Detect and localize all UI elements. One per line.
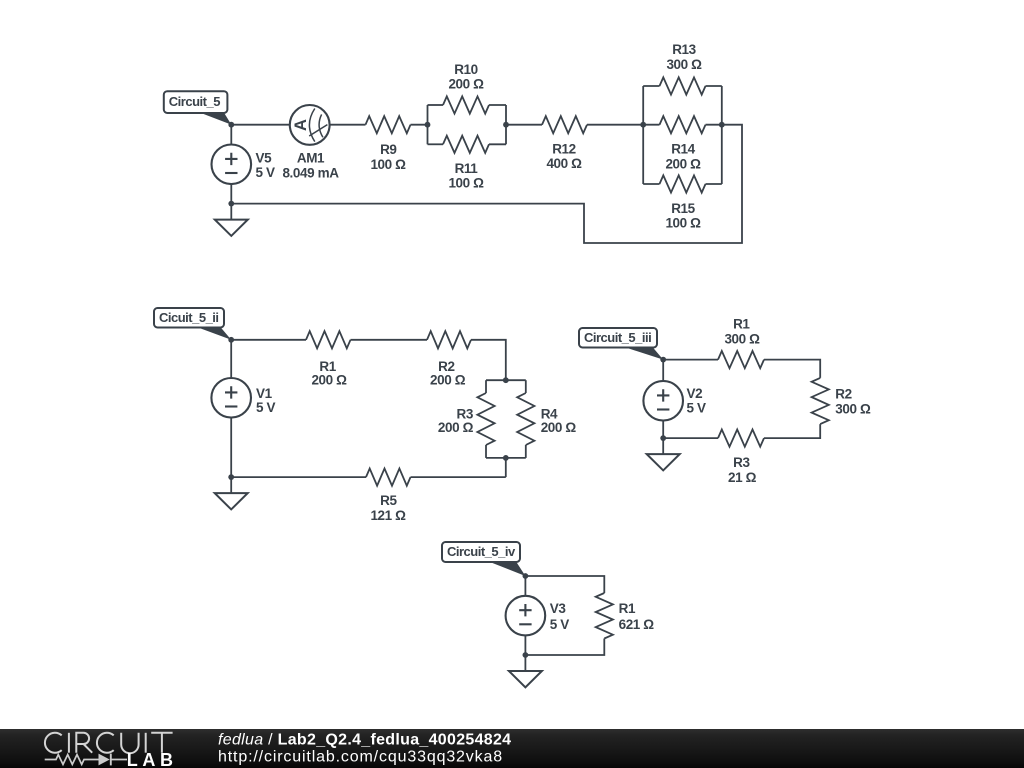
svg-text:8.049 mA: 8.049 mA — [282, 165, 339, 180]
voltage source V3 — [506, 596, 570, 636]
footer bar — [0, 729, 1024, 768]
svg-text:V2: V2 — [687, 386, 703, 401]
node G (V1+) — [228, 337, 234, 343]
node N (V3- / ground) — [523, 652, 529, 658]
svg-text:Circuit_5_iii: Circuit_5_iii — [584, 330, 651, 345]
svg-text:200 Ω: 200 Ω — [430, 373, 466, 388]
svg-text:A: A — [292, 119, 310, 131]
svg-text:5 V: 5 V — [550, 617, 569, 632]
node J (V1- / ground) — [228, 474, 234, 480]
svg-text:http://circuitlab.com/cqu33qq3: http://circuitlab.com/cqu33qq32vka8 — [218, 749, 503, 766]
ground circuit 1 — [215, 204, 248, 236]
net label Circuit_5_iv — [442, 542, 525, 576]
svg-text:V1: V1 — [256, 386, 273, 401]
svg-text:fedlua / Lab2_Q2.4_fedlua_4002: fedlua / Lab2_Q2.4_fedlua_400254824 — [218, 731, 511, 748]
wire R1 bottom to node N — [525, 639, 604, 656]
resistor R1 (iv) — [596, 593, 655, 639]
CircuitLab logo — [45, 733, 178, 768]
resistor R9 — [366, 116, 411, 172]
wire R9 to node B — [411, 124, 428, 126]
svg-text:V3: V3 — [550, 601, 567, 616]
wire top node to ammeter — [231, 124, 289, 126]
svg-text:300 Ω: 300 Ω — [666, 57, 702, 72]
svg-text:R1: R1 — [733, 317, 750, 332]
svg-text:R3: R3 — [733, 455, 750, 470]
wire V5 bottom to ground node — [230, 184, 232, 204]
svg-text:Circuit_5_iv: Circuit_5_iv — [447, 544, 516, 559]
node E (right junction) — [719, 122, 725, 128]
wire bottom rail right of R5 — [411, 476, 506, 478]
svg-text:100 Ω: 100 Ω — [665, 216, 701, 231]
net label Cicuit_5_ii — [154, 308, 231, 340]
node C (R10/R11/R12 junction) — [503, 122, 509, 128]
node H (R3/R4 top) — [503, 377, 509, 383]
svg-text:200 Ω: 200 Ω — [541, 420, 577, 435]
svg-text:R2: R2 — [835, 386, 851, 401]
node B (R9/R10/R11 junction) — [425, 122, 431, 128]
wire node C to R12 — [506, 124, 542, 126]
resistor R14 — [643, 116, 722, 172]
wire V3 bottom to node N — [524, 635, 526, 655]
wire R1 to R2 — [351, 339, 428, 341]
wire R3 to node L — [663, 437, 718, 439]
svg-text:R15: R15 — [671, 201, 695, 216]
wire node K to V2 top — [662, 360, 664, 381]
resistor R12 — [542, 116, 587, 171]
svg-text:Cicuit_5_ii: Cicuit_5_ii — [159, 310, 219, 325]
svg-text:200 Ω: 200 Ω — [311, 373, 347, 388]
resistor R15 — [643, 175, 722, 230]
svg-text:Circuit_5: Circuit_5 — [169, 94, 220, 109]
wire R12 to node D — [587, 124, 643, 126]
svg-text:R4: R4 — [541, 406, 558, 421]
svg-text:R12: R12 — [552, 141, 576, 156]
svg-text:21 Ω: 21 Ω — [728, 470, 757, 485]
wire parallel box R13-R15 left branch — [642, 86, 644, 184]
wire parallel box R13-R15 right branch — [721, 86, 723, 184]
ground circuit 2 — [215, 477, 248, 509]
wire R2 bottom to R3 — [764, 424, 820, 438]
wire ammeter to R9 — [330, 124, 366, 126]
svg-text:R9: R9 — [380, 142, 396, 157]
wire bottom rail left of R5 — [231, 476, 366, 478]
wire node M to R1 top — [525, 576, 604, 593]
svg-text:V5: V5 — [256, 151, 273, 166]
node I (R3/R4 bottom) — [503, 455, 509, 461]
resistor R3 (ii) — [438, 380, 495, 458]
svg-text:300 Ω: 300 Ω — [835, 402, 871, 417]
wire R3/R4 bottom bracket — [486, 457, 526, 459]
svg-text:5 V: 5 V — [687, 400, 706, 415]
node M (V3+) — [523, 573, 529, 579]
svg-text:621 Ω: 621 Ω — [619, 617, 655, 632]
svg-text:LAB: LAB — [127, 750, 178, 768]
resistor R10 — [428, 62, 507, 113]
wire node K to R1 — [663, 359, 718, 361]
node K (V2+) — [660, 357, 666, 363]
wire node M to V3 top — [524, 576, 526, 596]
svg-text:300 Ω: 300 Ω — [724, 332, 760, 347]
svg-text:400 Ω: 400 Ω — [546, 156, 582, 171]
ammeter AM1 — [282, 105, 339, 180]
ground circuit 4 — [509, 655, 542, 687]
wire V2 bottom to node L — [662, 421, 664, 439]
node F (ground junction) — [228, 201, 234, 207]
voltage source V5 — [212, 145, 275, 185]
svg-text:121 Ω: 121 Ω — [370, 508, 406, 523]
wire node to V5 top — [230, 125, 232, 145]
resistor R5 (ii) — [366, 469, 411, 524]
net label Circuit_5 — [164, 91, 232, 124]
resistor R11 — [428, 136, 507, 191]
svg-text:5 V: 5 V — [256, 400, 275, 415]
svg-text:R14: R14 — [671, 142, 695, 157]
resistor R4 (ii) — [517, 380, 576, 458]
svg-text:R5: R5 — [380, 493, 397, 508]
resistor R3 (iii) — [718, 430, 764, 486]
resistor R2 (ii) — [427, 331, 471, 387]
node A (V5 plus / flag) — [228, 122, 234, 128]
wire node G to V1 top — [230, 340, 232, 378]
wire return path right side — [231, 125, 742, 243]
wire R3/R4 top bracket — [486, 379, 526, 381]
wire node I down to bottom rail — [505, 458, 507, 477]
wire parallel box R10 R11 right branch — [505, 105, 507, 144]
resistor R1 (iii) — [718, 317, 764, 369]
resistor R2 (iii) — [812, 378, 871, 424]
wire node G to R1 — [231, 339, 306, 341]
svg-text:200 Ω: 200 Ω — [448, 77, 484, 92]
wire R2 to parallel pair — [471, 340, 506, 380]
svg-text:R11: R11 — [455, 161, 479, 176]
node D (R12/R13/R14/R15 junction) — [640, 122, 646, 128]
voltage source V2 — [643, 381, 706, 421]
wire R1 to R2 top — [764, 360, 820, 378]
ground circuit 3 — [647, 438, 680, 470]
svg-text:R13: R13 — [672, 42, 696, 57]
svg-text:R1: R1 — [619, 601, 636, 616]
svg-text:R10: R10 — [454, 62, 478, 77]
resistor R13 — [643, 42, 722, 94]
svg-text:R3: R3 — [457, 406, 474, 421]
voltage source V1 — [211, 378, 275, 418]
svg-text:200 Ω: 200 Ω — [438, 420, 474, 435]
wire V1 bottom to node J — [230, 418, 232, 478]
node L (V2- / ground) — [660, 435, 666, 441]
resistor R1 (ii) — [306, 331, 351, 387]
net label Circuit_5_iii — [579, 328, 663, 360]
svg-text:100 Ω: 100 Ω — [370, 157, 406, 172]
svg-text:200 Ω: 200 Ω — [665, 157, 701, 172]
wire parallel box R10 R11 left branch — [427, 105, 429, 144]
svg-text:5 V: 5 V — [256, 165, 275, 180]
svg-text:AM1: AM1 — [297, 151, 325, 166]
svg-text:100 Ω: 100 Ω — [448, 176, 484, 191]
